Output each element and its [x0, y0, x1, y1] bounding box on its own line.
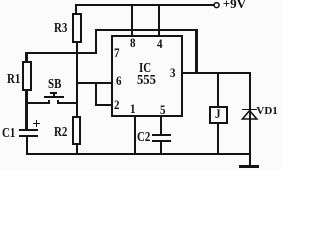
capacitor C1 top plate — [19, 129, 38, 131]
pin 8 — [130, 36, 136, 49]
wire: SB left wire — [25, 102, 49, 104]
wire: ground rail — [26, 153, 251, 155]
wire: SB right wire — [57, 102, 78, 104]
wire: R1 top lead — [25, 52, 27, 61]
wire: pin 2 branch vertical — [95, 82, 97, 106]
pin 1 — [130, 102, 136, 115]
wire: R2 bottom lead — [76, 145, 78, 153]
diode VD1 cathode bar — [242, 109, 257, 111]
wire: R3 bottom to R2 top vertical — [76, 43, 78, 117]
wire: pin 4 lead — [158, 5, 160, 35]
label VD1 — [256, 106, 277, 117]
IC 555 timer box — [111, 35, 183, 117]
wire: vertical x196 down to pin3 wire — [195, 29, 197, 75]
wire: C2 bottom lead — [160, 142, 162, 154]
wire: vertical x96 up — [95, 29, 97, 54]
wire: pin 2 wire — [95, 104, 113, 106]
wire: R1 bottom lead down to C1 — [25, 91, 27, 129]
pin 5 — [160, 103, 166, 116]
wire: horizontal y29 to output — [95, 29, 198, 31]
switch SB left contact post — [48, 100, 50, 104]
pin 4 — [157, 37, 163, 50]
capacitor C1 plus sign — [33, 123, 40, 124]
wire: pin 6 wire — [76, 82, 113, 84]
capacitor C2 bottom plate — [152, 140, 171, 142]
label R3 — [54, 22, 67, 36]
switch SB bar — [44, 96, 64, 98]
capacitor C2 top plate — [152, 134, 171, 136]
wire: +9V top supply rail — [75, 4, 214, 6]
wire: pin 5 lead — [160, 117, 162, 134]
wire: pin 1 lead — [134, 117, 136, 154]
wire: R3 top lead — [75, 4, 77, 14]
label C1 — [2, 127, 15, 141]
resistor R2 — [72, 116, 81, 145]
node: +9V terminal circle — [212, 1, 222, 10]
relay J box — [209, 106, 228, 124]
wire: VD1 vertical lead — [249, 74, 251, 166]
label C2 — [137, 131, 150, 145]
pin 7 — [114, 46, 120, 59]
net label +9V — [223, 0, 246, 10]
pin 3 — [170, 66, 176, 79]
wire: J bottom lead — [217, 124, 219, 154]
wire: C1 bottom lead — [26, 137, 28, 155]
label R1 — [7, 73, 20, 87]
wire: J top lead — [217, 74, 219, 106]
label R2 — [54, 126, 67, 140]
switch SB cap — [50, 92, 57, 94]
switch SB stem — [53, 93, 55, 96]
label SB — [48, 78, 61, 92]
ground symbol bar — [239, 165, 259, 168]
resistor R3 — [72, 13, 82, 43]
label 555 — [137, 74, 156, 88]
diode VD1 triangle — [240, 108, 259, 122]
switch SB right contact post — [57, 100, 59, 104]
label IC — [139, 62, 151, 76]
pin 2 — [114, 98, 120, 111]
capacitor C1 bottom plate — [19, 135, 38, 137]
wire: pin 3 output wire — [183, 72, 251, 74]
wire: pin 8 lead — [131, 5, 133, 35]
wire: horizontal node wire y53 (R1 top - R3/R2 junction - corner) — [25, 52, 97, 54]
resistor R1 — [22, 61, 33, 91]
label J — [215, 107, 221, 120]
pin 6 — [116, 74, 122, 87]
